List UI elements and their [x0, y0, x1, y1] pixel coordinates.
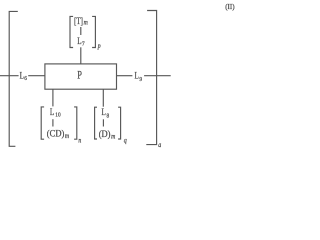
svg-text:L: L: [77, 35, 81, 46]
svg-text:m: m: [65, 133, 70, 141]
inner bottom-right bracket right: [118, 107, 121, 139]
wire: bond box bottom to L10 group: [52, 89, 54, 106]
wire: bond L9 crossing right bracket: [144, 75, 171, 77]
svg-text:[T]: [T]: [74, 16, 83, 26]
svg-text:8: 8: [107, 113, 110, 119]
svg-text:m: m: [84, 19, 89, 27]
wire: bond box top to L7 group: [80, 47, 82, 64]
svg-text:(II): (II): [225, 3, 235, 11]
svg-text:L: L: [50, 106, 54, 117]
svg-text:P: P: [77, 69, 82, 82]
inner top bracket right: [92, 16, 95, 47]
wire: bond box bottom to L8 group: [102, 89, 104, 107]
left outer bracket: [9, 11, 18, 146]
svg-text:L: L: [20, 69, 24, 80]
inner bottom-left bracket left: [41, 107, 44, 139]
wire: left bond crossing left bracket: [0, 75, 19, 77]
inner top bracket left: [70, 16, 73, 47]
svg-text:p: p: [97, 43, 101, 51]
svg-text:n: n: [78, 137, 81, 145]
svg-text:L: L: [102, 106, 106, 117]
svg-text:10: 10: [55, 112, 60, 118]
svg-text:m: m: [111, 133, 116, 141]
dash between L8 and (D)m: [102, 119, 104, 126]
svg-text:7: 7: [82, 41, 85, 47]
dash between L10 and (CD)m: [52, 119, 54, 126]
inner bottom-left bracket right: [74, 107, 77, 139]
wire: bond L6 to box: [28, 75, 45, 77]
svg-text:(CD): (CD): [47, 128, 65, 139]
dash between [T]m and L7: [80, 27, 82, 35]
svg-text:a: a: [158, 142, 161, 150]
svg-text:q: q: [124, 137, 128, 145]
wire: bond box to L9: [117, 75, 133, 77]
polymer box outline: [45, 64, 117, 89]
inner bottom-right bracket left: [95, 107, 97, 139]
svg-text:6: 6: [24, 76, 27, 82]
svg-text:9: 9: [139, 77, 142, 83]
svg-text:L: L: [135, 69, 139, 80]
right outer bracket: [146, 11, 156, 145]
svg-text:(D): (D): [99, 129, 111, 140]
